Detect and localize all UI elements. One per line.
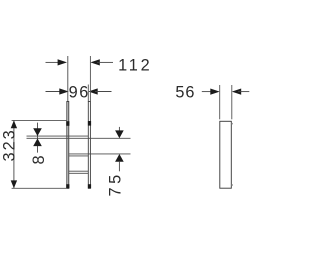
rung 3 bottom line	[69, 172, 88, 174]
extension line 323 top	[12, 119, 67, 121]
dimension 8 up arrowhead	[33, 138, 42, 146]
dimension 323 line	[13, 120, 15, 188]
extension line 323 bottom	[12, 187, 67, 189]
dimension 8 down arrowhead	[33, 128, 42, 136]
dimension 96 right arrowhead	[88, 88, 97, 94]
wall bar side view body	[220, 121, 232, 188]
rung 2 top line (extended right for 75 dim)	[69, 153, 131, 155]
rung 1 top line (extended left for 8 dim)	[27, 135, 89, 137]
wall mount nub top (side view)	[231, 123, 233, 125]
mounting dot top left	[66, 121, 69, 126]
svg-text:96: 96	[69, 84, 90, 102]
extension line side view left	[219, 85, 221, 119]
dimension 112 right arrowhead	[90, 59, 99, 65]
svg-text:323: 323	[0, 128, 18, 161]
svg-text:112: 112	[118, 56, 152, 74]
left rail of wall bar	[67, 102, 69, 189]
dimension 96 left tail	[46, 91, 63, 93]
dimension 75 down arrowhead	[115, 130, 124, 138]
rung 3 top line	[69, 170, 88, 172]
svg-text:75: 75	[107, 171, 125, 196]
dimension 56 right arrowhead	[232, 89, 241, 95]
dimension 75 up arrowhead	[115, 154, 124, 162]
dimension 323 down arrowhead	[11, 180, 17, 188]
mounting dot bottom right	[88, 184, 91, 188]
dimension 323 up arrowhead	[11, 120, 17, 128]
extension line left (front view)	[67, 56, 69, 102]
mounting dot bottom left	[66, 184, 69, 188]
dimension 56 right tail	[238, 91, 249, 93]
dimension 75 upper stub	[118, 127, 120, 131]
wall mount nub bottom (side view)	[231, 184, 233, 186]
dimension 56 left arrowhead	[210, 89, 219, 95]
dimension 8 line	[37, 123, 39, 153]
dimension 96 right tail	[95, 91, 112, 93]
right rail of wall bar	[88, 102, 90, 189]
dimension 56 left tail	[202, 91, 212, 93]
extension line side view right	[231, 85, 233, 119]
dimension 75 lower stub	[118, 162, 120, 172]
svg-text:8: 8	[30, 155, 48, 164]
extension line right inner (front view)	[87, 85, 89, 102]
dimension 96 left arrowhead	[59, 88, 68, 94]
rung 2 bottom line	[69, 155, 88, 157]
dimension 112 right tail	[97, 61, 113, 63]
svg-text:56: 56	[175, 84, 195, 102]
dimension 112 left arrowhead	[58, 59, 67, 65]
mounting dot top right	[88, 121, 91, 126]
dimension 112 left tail	[46, 61, 61, 63]
extension line right outer (front view)	[89, 56, 91, 102]
rung 1 bottom line (extended right for 75 dim)	[27, 137, 131, 139]
